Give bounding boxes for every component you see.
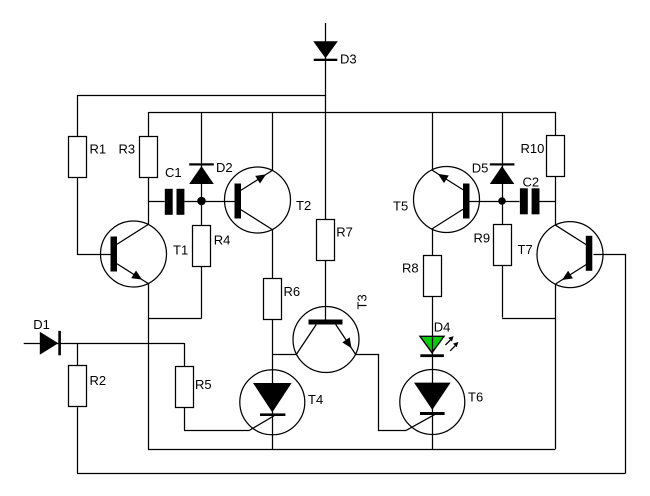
resistor R10 <box>547 136 565 177</box>
label C2 <box>523 174 540 189</box>
LED D4 <box>420 336 458 357</box>
wire R2 top <box>77 343 79 366</box>
label R3 <box>119 141 136 156</box>
wire C1 left <box>149 201 165 203</box>
svg-text:T1: T1 <box>173 242 188 257</box>
svg-text:T7: T7 <box>518 242 533 257</box>
wire R3 bottom to T1 collector <box>148 178 150 225</box>
wire node to T2 base <box>202 201 235 203</box>
label R5 <box>195 377 212 392</box>
wire T5 base to node2 <box>470 201 503 203</box>
wire C2 right to R10 line <box>540 201 556 203</box>
wire bus1 top rail <box>77 95 326 97</box>
label T4 <box>308 392 323 407</box>
wire D5 drop from bus2 to node2 <box>502 112 504 201</box>
wire node2 to C2 <box>502 201 520 203</box>
wire C1 right to node <box>185 201 202 203</box>
resistor R1 <box>69 137 87 178</box>
diode D3 <box>313 41 338 61</box>
label T6 <box>468 389 483 404</box>
label D1 <box>33 317 50 332</box>
wire D1 input line <box>24 343 184 345</box>
svg-text:T5: T5 <box>393 199 408 214</box>
svg-text:C2: C2 <box>523 174 540 189</box>
svg-text:R3: R3 <box>119 141 136 156</box>
thyristor T4 <box>240 370 305 435</box>
wire T2 bottom lead to R6 <box>272 229 274 278</box>
svg-text:T3: T3 <box>355 294 370 309</box>
wire R9 bottom <box>502 266 504 318</box>
resistor R5 <box>176 367 194 408</box>
diode D2 <box>189 163 214 184</box>
thyristor T6 <box>400 370 465 435</box>
node junction D5/C2/R9/T5 <box>498 197 506 205</box>
label D5 <box>472 161 489 176</box>
resistor R2 <box>69 366 87 407</box>
label T5 <box>393 199 408 214</box>
svg-text:R9: R9 <box>474 231 491 246</box>
wire R10 top <box>555 112 557 136</box>
label D4 <box>434 319 451 334</box>
label R7 <box>336 224 353 239</box>
wire T5 top lead to bus2 <box>432 112 434 170</box>
label T2 <box>296 198 311 213</box>
wire R4 to T1 emitter line <box>149 318 202 320</box>
wire R2 bottom to bottom rail 2 <box>77 407 79 473</box>
resistor R4 <box>193 226 211 267</box>
label R8 <box>402 261 419 276</box>
resistor R8 <box>424 256 442 297</box>
capacitor C1 <box>165 189 185 215</box>
wire bottom rail 2 <box>77 473 626 475</box>
label D3 <box>340 52 357 67</box>
svg-text:R6: R6 <box>284 284 301 299</box>
label T7 <box>518 242 533 257</box>
wire R5 top <box>184 343 186 366</box>
wire T1 emitter down to bottom rail <box>148 283 150 449</box>
transistor T2 <box>225 167 291 233</box>
wire D2 drop from bus2 to node <box>201 112 203 201</box>
wire right edge up to T7 base <box>594 255 626 474</box>
wire R8 bottom to LED D4 <box>432 297 434 337</box>
wire R4 bottom <box>201 267 203 319</box>
wire R6 bottom down through T4 to bottom rail <box>272 320 274 450</box>
label R2 <box>90 373 107 388</box>
svg-text:R8: R8 <box>402 261 419 276</box>
transistor T1 <box>101 221 167 287</box>
label R10 <box>521 141 545 156</box>
svg-text:R5: R5 <box>195 377 212 392</box>
wire R5 bottom to T4 gate <box>184 430 249 432</box>
resistor R7 <box>317 220 335 261</box>
wire T5 bottom lead to R8 <box>432 229 434 255</box>
resistor R6 <box>264 279 282 320</box>
label D2 <box>216 160 233 175</box>
wire bus2 second rail <box>149 112 557 114</box>
svg-text:R4: R4 <box>214 233 231 248</box>
svg-text:D3: D3 <box>340 52 357 67</box>
wire T3 right lead to T6 gate <box>356 355 407 431</box>
label T1 <box>173 242 188 257</box>
node junction C1/D2/R4/T2 <box>197 197 206 206</box>
wire T2 top lead to bus2 <box>272 112 274 171</box>
svg-text:C1: C1 <box>165 165 182 180</box>
wire branch to T3 left lead <box>272 354 297 356</box>
label R9 <box>474 231 491 246</box>
svg-text:T6: T6 <box>468 389 483 404</box>
svg-text:R7: R7 <box>336 224 353 239</box>
wire R7 bottom to T3 base <box>325 261 327 320</box>
wire T7 emitter down to bottom rail 1 <box>555 284 557 449</box>
label R6 <box>284 284 301 299</box>
wire R9 top <box>502 201 504 225</box>
wire R10 bottom to T7 collector <box>555 177 557 225</box>
wire R1 top <box>77 95 79 136</box>
svg-text:D4: D4 <box>434 319 451 334</box>
svg-text:D5: D5 <box>472 161 489 176</box>
svg-text:R1: R1 <box>90 141 107 156</box>
wire R1 bottom to T1 base <box>78 178 112 255</box>
wire bottom rail 1 <box>148 449 556 451</box>
wire R9 to T7 emitter line <box>502 318 556 320</box>
label R4 <box>214 233 231 248</box>
svg-text:R2: R2 <box>90 373 107 388</box>
svg-text:R10: R10 <box>521 141 545 156</box>
diode D5 <box>490 163 515 184</box>
label R1 <box>90 141 107 156</box>
resistor R3 <box>140 137 158 178</box>
diode D1 <box>40 331 61 355</box>
wire D3 top feed and vertical down to R7 <box>325 23 327 219</box>
transistor T7 <box>537 222 603 288</box>
wire D4 to T6 and down to bottom rail <box>432 336 434 449</box>
svg-text:T2: T2 <box>296 198 311 213</box>
wire R4 top <box>201 201 203 225</box>
wire R3 top <box>148 112 150 136</box>
label C1 <box>165 165 182 180</box>
svg-text:D2: D2 <box>216 160 233 175</box>
label T3 <box>355 294 370 309</box>
svg-text:D1: D1 <box>33 317 50 332</box>
transistor T3 <box>293 307 359 373</box>
svg-text:T4: T4 <box>308 392 323 407</box>
capacitor C2 <box>520 188 540 214</box>
wire R5 bottom <box>184 408 186 431</box>
resistor R9 <box>494 225 512 266</box>
transistor T5 <box>414 167 480 233</box>
